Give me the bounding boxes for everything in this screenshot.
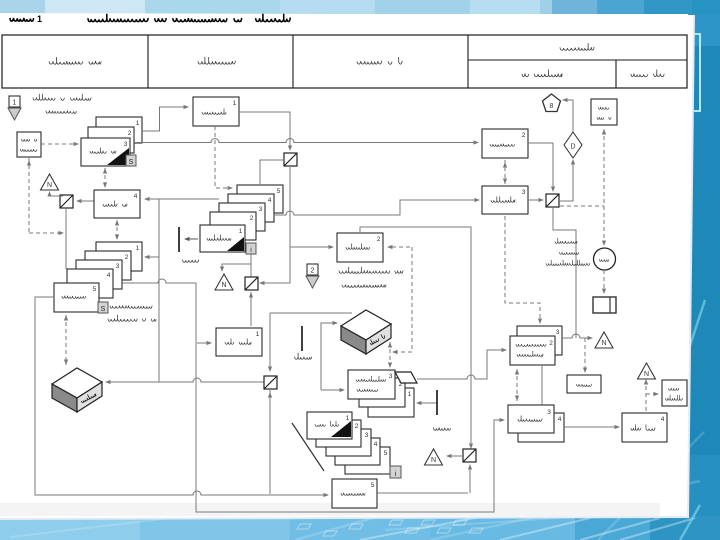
tag i bbox=[246, 243, 256, 254]
svg-text:2: 2 bbox=[128, 130, 132, 137]
diamond D file bbox=[564, 132, 582, 158]
main title text bbox=[88, 14, 294, 22]
svg-text:1: 1 bbox=[136, 245, 140, 252]
file symbol N and sort symbol bbox=[41, 174, 59, 190]
bottom band capsule pattern bbox=[297, 517, 695, 540]
vendor terminator tick 2 bbox=[301, 326, 303, 351]
box: stock card bbox=[17, 132, 41, 157]
svg-text:S: S bbox=[101, 306, 106, 313]
document stack: delivery note copies 5-2 bbox=[345, 447, 390, 474]
dashed wire: sort to posting line bbox=[560, 205, 604, 207]
wire: bus to goods requisition bbox=[197, 342, 210, 344]
wire: PO copy 3 to receiving bbox=[121, 279, 503, 512]
wire: sort to goods cube bbox=[107, 378, 265, 382]
document stack: purchase requisition copies 1-2 bbox=[96, 117, 142, 143]
svg-text:5: 5 bbox=[93, 286, 97, 293]
dashed wire: PO4 to stack bbox=[116, 220, 118, 240]
wire: PO1 to sort box bbox=[239, 112, 290, 149]
box: PO copy 3 accounting bbox=[482, 186, 528, 214]
black folded corner 2 bbox=[227, 237, 244, 251]
svg-text:4: 4 bbox=[661, 416, 665, 423]
vendor terminator tick 3 bbox=[436, 390, 438, 415]
svg-text:4: 4 bbox=[558, 416, 562, 423]
register symbol bbox=[593, 297, 616, 313]
svg-text:5: 5 bbox=[277, 188, 281, 195]
wire: sort to diamond D bbox=[560, 161, 573, 201]
file symbol N 6 bbox=[638, 363, 656, 379]
svg-text:2: 2 bbox=[125, 254, 129, 261]
svg-text:1: 1 bbox=[346, 415, 350, 422]
svg-text:2: 2 bbox=[250, 215, 254, 222]
file symbol N 2 bbox=[215, 274, 233, 290]
vendor terminator tick 1 bbox=[178, 227, 180, 252]
dashed wire: below stock card bbox=[28, 158, 30, 233]
dashed wire: into PO2 bbox=[389, 246, 410, 248]
svg-text:1: 1 bbox=[233, 100, 237, 107]
svg-text:D: D bbox=[570, 144, 575, 151]
svg-text:1: 1 bbox=[37, 14, 42, 24]
svg-text:N: N bbox=[601, 340, 606, 347]
goods cube warehouse bbox=[52, 368, 102, 398]
sort symbol mid bbox=[284, 153, 297, 166]
right blue band bbox=[688, 0, 720, 540]
document: invoice copy 2 accounting bbox=[510, 336, 555, 365]
box: general ledger file bbox=[591, 99, 617, 125]
svg-text:4: 4 bbox=[134, 193, 138, 200]
wire: sort to file N bbox=[448, 455, 463, 457]
svg-text:3: 3 bbox=[389, 373, 393, 380]
dashed wire: to kp3 box bbox=[584, 338, 586, 371]
document stack: PO copies 5-2 bbox=[237, 185, 283, 213]
dashed wire: down to journal circle bbox=[603, 206, 605, 244]
document stack: invoice copies 1-2 bbox=[368, 388, 414, 417]
wire: requisition2 to sort bbox=[528, 143, 553, 190]
black folded corner bbox=[107, 148, 129, 165]
svg-text:4: 4 bbox=[268, 197, 272, 204]
svg-text:3: 3 bbox=[116, 263, 120, 270]
right band chevron pattern bbox=[640, 300, 705, 540]
svg-text:2: 2 bbox=[522, 132, 526, 139]
wire: sort to PO stack bbox=[260, 160, 284, 184]
dashed wire: to stock control file bbox=[646, 393, 657, 395]
dashed wire: PO3 to invoice pair bbox=[505, 216, 540, 322]
wire: to cube left bbox=[321, 323, 336, 390]
wire: diamond to pentagon 8 bbox=[564, 100, 573, 132]
svg-text:1: 1 bbox=[256, 331, 260, 338]
note text: journal entry bbox=[555, 238, 577, 243]
wire: PO copy 5 to delivery note bbox=[35, 297, 327, 495]
wire: requisition to PO1 bbox=[142, 107, 187, 131]
document: purchase requisition copy 3 bbox=[81, 138, 130, 166]
wire: vendor to invoice copy 1 bbox=[418, 402, 437, 404]
svg-text:3: 3 bbox=[547, 409, 551, 416]
header cell: inventory ledger bbox=[631, 70, 671, 77]
box: goods received copy 4 inventory bbox=[622, 413, 667, 442]
goods cube receiving bbox=[341, 310, 391, 340]
svg-text:3: 3 bbox=[259, 206, 263, 213]
svg-text:1: 1 bbox=[136, 120, 140, 127]
svg-text:1: 1 bbox=[13, 100, 17, 107]
note text: vendor delivers goods bbox=[339, 267, 403, 274]
wire: vertical distribution bbox=[158, 199, 160, 382]
box: goods requisition bbox=[216, 328, 262, 356]
bottom band streak pattern bbox=[10, 432, 704, 540]
document stack: PO copies 1-4 left bbox=[96, 242, 142, 271]
svg-text:S: S bbox=[129, 159, 134, 166]
wire: sort down to junction bbox=[553, 208, 576, 338]
pentagon connector 8 bbox=[543, 94, 561, 112]
dashed wire: journal to register bbox=[603, 270, 605, 292]
dashed wire: PO1 to PO stack bbox=[215, 126, 231, 188]
label: vendor bbox=[183, 260, 199, 262]
wire: pair to goods received box bbox=[541, 365, 543, 412]
svg-text:2: 2 bbox=[377, 236, 381, 243]
document: invoice copy 3 accounting bbox=[517, 326, 562, 355]
wire: PO2 top long vertical bbox=[360, 227, 471, 447]
sort symbol 4 bbox=[264, 376, 277, 389]
document: PO copy 5 bbox=[54, 283, 99, 312]
wire: sort down to distribution bbox=[261, 166, 290, 283]
file symbol N 4 bbox=[425, 449, 443, 465]
box: purchase order copy 1 bbox=[193, 97, 239, 126]
note text: reorder point bbox=[33, 94, 91, 101]
document: goods received copy 3 bbox=[508, 405, 554, 433]
svg-text:2: 2 bbox=[549, 340, 553, 347]
cyan bracket bbox=[694, 34, 700, 111]
header cell: accounting division bbox=[560, 43, 594, 50]
dashed wire: cube to invoice stack bbox=[389, 342, 391, 366]
box: requisition copy 2 accounting bbox=[482, 129, 528, 158]
off-page connector 2 bbox=[307, 264, 318, 275]
wire: PO4 to sort bbox=[78, 200, 94, 202]
dashed wire: posting up to GL bbox=[603, 129, 605, 206]
wire: invoice to accounting pair bbox=[417, 350, 505, 379]
long bus wire to requisition copy 2 bbox=[134, 139, 477, 143]
wire: sort down to stack bbox=[65, 208, 67, 269]
wire: up into sort bbox=[469, 466, 471, 493]
header cell: receiving dept bbox=[357, 57, 402, 64]
top blue strip bbox=[0, 0, 45, 14]
wire: requisition box up to sort bbox=[250, 292, 252, 326]
diagonal stack mark bbox=[292, 423, 324, 471]
off-page connector 1 bbox=[9, 96, 20, 107]
wire: cube feed horizontal bbox=[270, 312, 352, 314]
document: goods received copy 4 bbox=[518, 413, 564, 442]
caption text: pic label bbox=[10, 18, 34, 21]
document: delivery note copy 1 bbox=[307, 412, 352, 439]
box: stock control file bbox=[662, 380, 687, 406]
dashed wire: stock card to requisition stack bbox=[41, 143, 77, 145]
box: PO copy 2 receiving bbox=[337, 233, 383, 262]
dashed wire: requisition to PO box bbox=[104, 168, 106, 188]
document: invoice copy 3 bbox=[348, 370, 395, 399]
box: purchase order copy 4 bbox=[94, 190, 140, 218]
box: delivery note copy 5 bbox=[332, 479, 377, 508]
header cell: purchasing dept bbox=[198, 57, 241, 64]
flap on invoice stack bbox=[395, 372, 417, 383]
svg-text:5: 5 bbox=[371, 482, 375, 489]
header table frame bbox=[2, 35, 687, 88]
dashed wire: stack to goods cube bbox=[65, 315, 67, 365]
box: kp3 report bbox=[567, 375, 601, 393]
svg-text:2: 2 bbox=[311, 268, 315, 275]
svg-text:N: N bbox=[644, 371, 649, 378]
dashed wire: up to file N bbox=[645, 381, 647, 411]
sort symbol 5 bbox=[463, 449, 476, 462]
svg-text:5: 5 bbox=[384, 450, 388, 457]
wire: PO3 to sort bbox=[528, 199, 542, 201]
sort symbol accounting bbox=[546, 194, 559, 207]
svg-text:4: 4 bbox=[107, 272, 111, 279]
svg-text:4: 4 bbox=[374, 441, 378, 448]
wire: to PO copy 2 bbox=[290, 246, 332, 248]
svg-text:3: 3 bbox=[522, 189, 526, 196]
svg-text:3: 3 bbox=[365, 432, 369, 439]
journal circle bbox=[594, 248, 616, 270]
wire: stack to PO4 bbox=[146, 198, 219, 200]
wire: sort to file N bbox=[50, 193, 64, 196]
black folded corner 3 bbox=[331, 421, 351, 437]
svg-text:3: 3 bbox=[556, 329, 560, 336]
wire: PO4 to PO3 accounting bbox=[274, 200, 478, 215]
wire: goods received to inventory ledger bbox=[564, 426, 618, 428]
tag S bbox=[126, 155, 136, 166]
sort symbol 3 bbox=[245, 277, 258, 290]
header cell: warehouse dept bbox=[49, 57, 101, 64]
tag i 2 bbox=[390, 466, 401, 478]
header cell: general ledger bbox=[522, 70, 562, 77]
document: PO copy 1 bbox=[200, 225, 245, 252]
dashed wire: invoice pair to goods received bbox=[516, 369, 518, 401]
wire: invoice pair to file N bbox=[562, 334, 591, 338]
dashed wire: requisition to PO3 bbox=[504, 160, 506, 184]
dashed wire: PO2 down bbox=[394, 247, 412, 352]
svg-text:N: N bbox=[47, 182, 52, 189]
svg-text:1: 1 bbox=[239, 228, 243, 235]
note text: quality check bbox=[110, 305, 152, 308]
svg-text:1: 1 bbox=[408, 391, 412, 398]
svg-text:8: 8 bbox=[550, 103, 554, 110]
wire: delivery note to sort bbox=[376, 492, 468, 494]
tag S 2 bbox=[98, 302, 108, 313]
svg-text:3: 3 bbox=[124, 141, 128, 148]
svg-text:N: N bbox=[221, 282, 226, 289]
wire: PO1 tag to file N bbox=[222, 253, 251, 270]
svg-text:N: N bbox=[431, 457, 436, 464]
file symbol N 5 bbox=[595, 332, 613, 348]
svg-text:2: 2 bbox=[355, 423, 359, 430]
bottom blue band bbox=[0, 516, 140, 540]
